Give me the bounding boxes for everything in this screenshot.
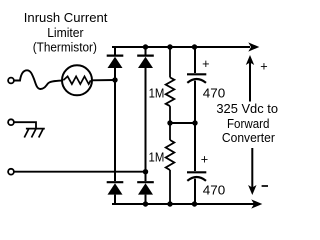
diode D4 (bottom right) — [137, 182, 154, 204]
node: middle rail / R — [167, 120, 172, 125]
svg-text:325 Vdc to: 325 Vdc to — [216, 101, 278, 116]
arrowhead: - output right — [251, 199, 262, 208]
wire: AC1 down to D3 (crosses AC2 wire) — [114, 80, 116, 181]
svg-text:Forward: Forward — [227, 116, 269, 131]
svg-text:1M: 1M — [149, 150, 165, 164]
chassis ground — [24, 129, 45, 138]
wire: AC2 down to D4 — [145, 172, 147, 181]
node: bottom rail / R2 — [167, 201, 172, 206]
svg-text:+: + — [202, 57, 209, 71]
svg-text:Inrush Current: Inrush Current — [24, 10, 108, 25]
wire: J3 to node AC2 — [14, 171, 145, 173]
node: bottom rail / D4 — [143, 201, 148, 206]
node: middle rail / C — [192, 120, 197, 125]
svg-text:(Thermistor): (Thermistor) — [33, 40, 97, 55]
svg-text:1M: 1M — [149, 87, 165, 101]
wire: J2 to chassis ground — [14, 122, 36, 128]
capacitor C2 470 (bottom bulk cap) — [187, 123, 206, 204]
diode D3 (bottom left) — [107, 182, 124, 204]
label: 325 Vdc to Forward Converter — [216, 101, 278, 145]
svg-text:+: + — [201, 153, 208, 167]
thermistor RT1 — [62, 65, 92, 95]
diode D1 (top left) — [107, 47, 124, 80]
wire: top rail (+ output) — [112, 46, 250, 48]
terminal J3 (neutral input) — [8, 169, 14, 175]
terminal J2 (safety ground) — [8, 119, 14, 125]
svg-text:470: 470 — [203, 85, 225, 100]
node: top rail / R1 — [167, 44, 172, 49]
node: top rail / D2 — [143, 44, 148, 49]
label: output - — [262, 185, 268, 187]
terminal J1 (line input) — [8, 78, 14, 84]
wire: thermistor to node AC1 — [92, 79, 115, 81]
node AC1 — [112, 77, 117, 82]
svg-text:Limiter: Limiter — [47, 25, 84, 40]
capacitor C1 470 (top bulk cap) — [187, 47, 206, 123]
svg-text:470: 470 — [203, 182, 225, 197]
label: Inrush Current Limiter (Thermistor) — [24, 10, 108, 55]
wire: middle rail R/C junction — [170, 122, 195, 124]
node AC2 — [143, 169, 148, 174]
diode D2 (top right) — [137, 47, 154, 172]
wire: bottom rail (- output) — [112, 203, 254, 205]
arrowhead: + output right — [248, 42, 259, 51]
wire: wavy lead from J1 to thermistor — [14, 70, 62, 89]
svg-text:Converter: Converter — [222, 130, 276, 145]
arrow: output voltage down (-) — [248, 148, 256, 195]
node: top rail / C1 — [192, 44, 197, 49]
svg-text:+: + — [260, 60, 267, 74]
node: bottom rail / C2 — [192, 201, 197, 206]
resistor R1 1M (top bleeder) — [166, 47, 175, 123]
resistor R2 1M (bottom bleeder) — [166, 123, 175, 204]
arrow: output voltage up (+) — [246, 55, 254, 102]
